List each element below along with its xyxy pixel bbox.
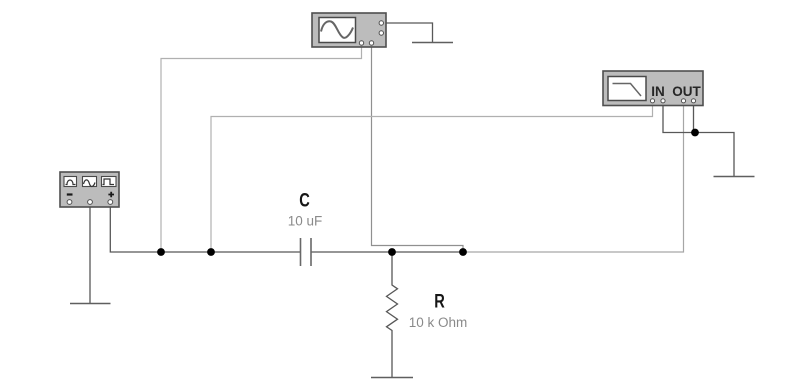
ground GND1 (below function generator) (70, 303, 111, 305)
wire: ground junction right and down to ground GND3 (695, 133, 734, 177)
resistor R1 (zigzag with leads) (387, 252, 398, 377)
wire: XSC1 channel B terminal down to y245.5, right, down to node B junction (372, 44, 464, 252)
ground GND2 (right of oscilloscope) (412, 42, 453, 44)
svg-text:IN: IN (651, 84, 665, 99)
wire: XBP1 IN- terminal down and right to ground junction (663, 102, 695, 133)
svg-text:10 k Ohm: 10 k Ohm (409, 315, 468, 330)
capacitor C1 label C (299, 188, 310, 211)
wire: XFG1 COM terminal to ground GND1 (89, 205, 91, 304)
oscilloscope XSC1 (312, 13, 386, 47)
svg-text:C: C (299, 188, 310, 211)
wire: capacitor C1 right plate to resistor R1 top (node B) (312, 251, 393, 253)
bode plotter XBP1 (603, 71, 703, 106)
svg-text:R: R (434, 289, 445, 312)
resistor R1 label R (434, 289, 445, 312)
junction node B dot 2 (x463) (459, 248, 467, 256)
wire: junction x463 right and up to XBP1 OUT+ terminal (463, 104, 684, 252)
svg-text:OUT: OUT (672, 84, 701, 99)
wire: XBP1 OUT- terminal down to ground junction (693, 102, 695, 133)
junction node A dot 1 (x161) (157, 248, 165, 256)
wire: XSC1 ground terminal right and down to ground GND2 (385, 23, 433, 42)
wire: XSC1 channel A terminal down, left, down to node A junction (161, 44, 362, 252)
junction ground net dot (x695) (691, 129, 699, 137)
junction node B dot 1 (x392) (388, 248, 396, 256)
ground GND3 (below bode plotter) (714, 176, 755, 178)
wire: node B to junction at x463 (392, 251, 463, 253)
wire: XBP1 IN+ terminal down, left, down to node A junction (211, 102, 653, 252)
junction node A dot 2 (x211) (207, 248, 215, 256)
capacitor C1 plates (301, 238, 312, 266)
function generator XFG1 (60, 172, 119, 207)
ground GND4 (below resistor R1) (371, 377, 413, 379)
wire: XFG1 + output down and right to capacitor C1 left plate (node A) (110, 205, 300, 253)
svg-text:10 uF: 10 uF (288, 214, 323, 229)
